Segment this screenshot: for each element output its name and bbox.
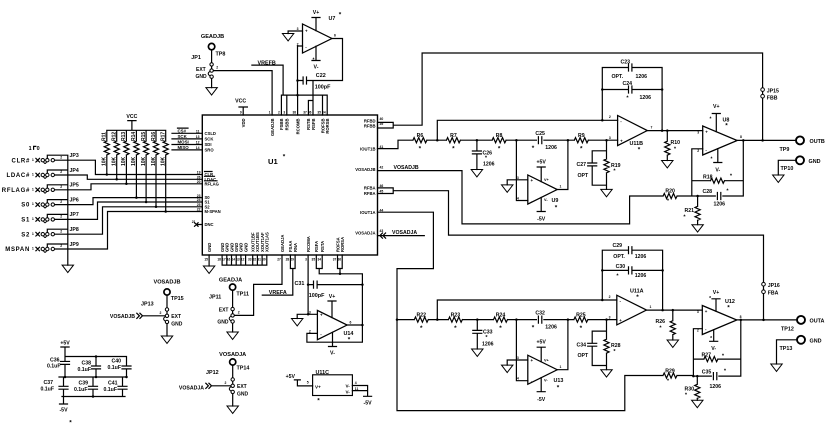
svg-text:2: 2 [697,328,699,332]
svg-text:3: 3 [609,316,611,320]
svg-text:R9: R9 [578,133,585,139]
svg-text:+: + [620,138,623,143]
svg-text:10K: 10K [112,156,118,166]
svg-text:C37: C37 [43,380,53,386]
svg-text:R27: R27 [702,353,712,359]
svg-text:TP10: TP10 [781,166,794,172]
svg-text:2: 2 [216,66,218,70]
svg-text:R17: R17 [161,132,167,141]
svg-text:SCK: SCK [178,134,188,139]
svg-text:C34: C34 [577,342,587,348]
svg-text:100pF: 100pF [315,85,331,91]
svg-text:2: 2 [278,110,280,114]
svg-text:35: 35 [312,258,316,262]
svg-text:FBB: FBB [767,96,778,102]
svg-text:S0: S0 [21,203,30,209]
svg-text:EXT: EXT [171,314,181,320]
svg-text:1: 1 [32,217,34,221]
svg-text:*: * [710,116,712,122]
svg-text:RSBB: RSBB [285,119,290,131]
svg-text:U13: U13 [554,378,564,384]
svg-text:C32: C32 [535,310,545,316]
svg-text:+: + [705,309,708,314]
svg-text:1: 1 [560,365,562,369]
svg-text:VOSADJA: VOSADJA [355,231,375,236]
svg-text:2: 2 [60,244,62,248]
svg-text:2: 2 [697,149,699,153]
svg-text:R8: R8 [496,133,503,139]
svg-text:R21: R21 [684,208,694,214]
svg-text:C27: C27 [577,162,587,168]
svg-text:SDI: SDI [205,142,212,147]
svg-text:1206: 1206 [483,162,495,168]
svg-text:41: 41 [380,145,384,149]
svg-text:GND: GND [171,321,183,327]
svg-text:JP1: JP1 [191,55,201,61]
svg-text:C38: C38 [81,361,91,367]
svg-text:SRO: SRO [205,148,215,153]
svg-text:R7: R7 [450,133,457,139]
svg-text:3: 3 [609,136,611,140]
svg-text:+: + [531,358,534,363]
svg-text:42: 42 [380,165,384,169]
svg-text:3: 3 [697,131,699,135]
svg-text:6: 6 [350,321,352,325]
svg-text:LDAC#: LDAC# [6,173,30,179]
svg-text:GEADJA: GEADJA [219,277,242,283]
svg-text:+5V: +5V [60,341,70,347]
svg-text:JP8: JP8 [70,227,79,233]
svg-text:MOSI: MOSI [178,140,189,145]
svg-text:GEADJB: GEADJB [201,34,224,40]
svg-text:IOUT1B: IOUT1B [360,146,375,151]
svg-text:TP9: TP9 [780,147,790,153]
svg-text:2: 2 [609,115,611,119]
svg-text:GND: GND [243,243,248,252]
svg-text:0.1uF: 0.1uF [77,367,91,373]
svg-text:R18: R18 [703,175,713,181]
svg-text:U1: U1 [268,157,278,166]
svg-text:38: 38 [292,110,296,114]
svg-text:XOUT1AS: XOUT1AS [265,232,270,252]
svg-text:10K: 10K [102,156,108,166]
svg-text:R29: R29 [665,368,675,374]
svg-text:36: 36 [308,110,312,114]
svg-text:0: 0 [37,146,40,152]
svg-text:RSFB: RSFB [311,119,316,130]
svg-text:RORSB: RORSB [325,119,330,134]
svg-text:VDD: VDD [241,119,246,128]
svg-text:+: + [531,178,534,183]
svg-text:R22: R22 [417,313,427,319]
svg-text:12: 12 [241,258,245,262]
svg-text:37: 37 [303,110,307,114]
svg-text:EXT: EXT [196,67,206,73]
svg-text:RCOMA: RCOMA [306,236,311,252]
svg-text:22: 22 [197,208,201,212]
svg-text:GND: GND [809,159,821,165]
svg-text:R15: R15 [141,132,147,141]
svg-text:EXT: EXT [219,308,229,314]
svg-text:14: 14 [231,258,235,262]
svg-text:VOSADJA: VOSADJA [219,352,246,358]
svg-text:34: 34 [322,110,326,114]
svg-text:JP16: JP16 [768,283,780,289]
svg-text:+: + [320,312,323,317]
svg-text:1206: 1206 [640,95,652,101]
svg-text:1: 1 [32,158,34,162]
svg-text:TP11: TP11 [236,291,249,297]
svg-text:37: 37 [333,258,337,262]
svg-text:2: 2 [60,185,62,189]
svg-text:*: * [709,296,711,302]
svg-text:0.1uF: 0.1uF [40,387,54,393]
svg-text:7: 7 [651,125,653,129]
svg-text:OUTB: OUTB [810,139,825,145]
svg-text:V-: V- [345,384,350,389]
svg-text:0.1uF: 0.1uF [74,387,88,393]
svg-text:V+: V+ [315,384,321,389]
svg-text:VOSADJB: VOSADJB [355,167,375,172]
svg-text:R16: R16 [151,132,157,141]
svg-text:-5V: -5V [59,407,68,413]
svg-text:*: * [711,156,713,162]
svg-text:R14: R14 [131,132,137,141]
svg-text:R11: R11 [102,132,108,141]
svg-text:R6: R6 [417,133,424,139]
svg-text:V-: V- [711,346,716,352]
svg-text:46: 46 [380,184,384,188]
svg-text:+5V: +5V [537,340,547,346]
svg-text:V-: V- [314,65,319,71]
svg-text:3: 3 [517,176,519,180]
svg-text:4: 4 [517,377,519,381]
svg-text:28: 28 [286,258,290,262]
svg-text:2: 2 [60,170,62,174]
svg-text:C22: C22 [316,73,326,79]
svg-text:1: 1 [29,146,32,152]
svg-text:V+: V+ [544,358,550,362]
svg-text:8: 8 [740,315,742,319]
svg-text:TP14: TP14 [237,365,250,371]
svg-text:R30: R30 [684,386,694,392]
svg-text:40: 40 [380,117,384,121]
svg-text:RFLAG#: RFLAG# [2,188,30,194]
svg-text:4: 4 [355,381,357,385]
svg-text:8: 8 [740,135,742,139]
svg-text:43: 43 [380,229,384,233]
svg-text:OPT.: OPT. [613,254,625,260]
svg-text:M-SPAN: M-SPAN [205,209,221,214]
svg-text:VOSADJA: VOSADJA [179,386,204,392]
svg-text:VOSADJB: VOSADJB [394,165,419,171]
svg-text:U11C: U11C [316,370,330,376]
svg-text:C29: C29 [613,243,623,249]
svg-text:V+: V+ [329,294,336,300]
svg-text:TP12: TP12 [781,327,794,333]
svg-text:3: 3 [283,110,285,114]
svg-text:R25: R25 [576,313,586,319]
svg-text:0.1uF: 0.1uF [103,387,117,393]
svg-text:16: 16 [227,258,231,262]
svg-text:SCK: SCK [205,137,214,142]
svg-text:13: 13 [196,135,200,139]
svg-text:23: 23 [197,194,201,198]
svg-text:1: 1 [32,247,34,251]
svg-text:30: 30 [262,258,266,262]
svg-text:VCC: VCC [126,114,137,120]
svg-text:TP15: TP15 [171,296,184,302]
svg-text:10K: 10K [131,156,137,166]
svg-text:C41: C41 [108,381,118,387]
svg-text:GND: GND [217,320,229,326]
svg-text:1: 1 [32,202,34,206]
svg-text:JP13: JP13 [141,302,154,308]
svg-text:GND: GND [237,391,249,397]
svg-text:31: 31 [257,258,261,262]
svg-text:10K: 10K [161,156,167,166]
svg-text:R10: R10 [671,140,681,146]
svg-text:VREFB: VREFB [258,60,276,66]
svg-text:19: 19 [197,171,201,175]
svg-text:3: 3 [305,258,307,262]
svg-text:GND: GND [196,74,208,80]
svg-text:C31: C31 [295,281,305,287]
svg-text:18: 18 [217,258,221,262]
svg-text:MISO: MISO [178,145,190,150]
svg-text:+5V: +5V [537,159,547,165]
svg-text:JP5: JP5 [70,183,79,189]
svg-text:24: 24 [197,198,201,202]
svg-text:14: 14 [196,146,200,150]
svg-text:JP3: JP3 [70,153,79,159]
svg-text:CLR#: CLR# [12,158,30,164]
svg-text:V-: V- [345,389,350,394]
svg-text:1206: 1206 [545,145,557,151]
svg-text:21: 21 [192,220,196,224]
svg-text:36: 36 [337,258,341,262]
svg-text:GND: GND [810,338,822,344]
svg-text:9: 9 [240,110,242,114]
svg-text:S2: S2 [21,232,30,238]
svg-text:11: 11 [196,130,200,134]
svg-text:3: 3 [517,356,519,360]
svg-text:V-: V- [715,168,720,174]
svg-text:2: 2 [160,311,162,315]
svg-text:12: 12 [196,141,200,145]
svg-text:26: 26 [197,176,201,180]
svg-text:100pF: 100pF [309,293,325,299]
svg-text:RFBA: RFBA [364,186,376,191]
svg-text:C36: C36 [50,357,60,363]
svg-text:RFBB: RFBB [364,124,376,129]
svg-text:OPT: OPT [578,173,589,179]
svg-text:VREFA: VREFA [269,290,287,296]
svg-text:15: 15 [204,258,208,262]
svg-text:6: 6 [334,33,336,37]
svg-text:2: 2 [609,295,611,299]
svg-text:0.1uF: 0.1uF [107,365,121,371]
svg-text:2: 2 [297,42,299,46]
svg-text:RCOMB: RCOMB [295,119,300,135]
svg-text:FSBB: FSBB [279,119,284,130]
svg-text:1206: 1206 [636,74,648,80]
svg-text:10K: 10K [121,156,127,166]
svg-text:1: 1 [32,187,34,191]
svg-text:3: 3 [309,310,311,314]
svg-text:V+: V+ [313,10,320,16]
svg-text:GEADJB: GEADJB [270,119,275,136]
svg-text:S1: S1 [21,218,30,224]
svg-text:2: 2 [238,311,240,315]
svg-text:2: 2 [309,330,311,334]
svg-text:V+: V+ [544,178,550,182]
svg-text:44: 44 [380,208,384,212]
svg-text:CS#: CS# [178,129,187,134]
svg-text:35: 35 [317,110,321,114]
svg-text:27: 27 [277,258,281,262]
svg-text:JP11: JP11 [209,294,221,300]
svg-text:+: + [619,318,622,323]
svg-text:R13: R13 [121,132,127,141]
svg-text:FBA: FBA [768,290,779,296]
svg-text:GEADJA: GEADJA [280,235,285,252]
svg-text:C23: C23 [621,59,631,65]
svg-text:3: 3 [297,27,299,31]
svg-text:VCC: VCC [235,99,246,105]
svg-text:1: 1 [32,173,34,177]
svg-text:1: 1 [269,110,271,114]
svg-text:2: 2 [225,381,227,385]
svg-text:CSLD: CSLD [205,131,216,136]
svg-text:GND: GND [207,243,212,252]
svg-text:C40: C40 [111,358,121,364]
svg-text:R24: R24 [496,313,506,319]
svg-text:JP12: JP12 [206,370,219,376]
svg-text:C30: C30 [616,264,626,270]
svg-text:1206: 1206 [635,254,647,260]
svg-text:RSTA: RSTA [320,241,325,252]
svg-text:45: 45 [380,190,384,194]
svg-text:25: 25 [197,203,201,207]
svg-text:20: 20 [197,180,201,184]
svg-text:MSPAN: MSPAN [5,247,30,253]
svg-text:1: 1 [32,232,34,236]
svg-text:RORSA: RORSA [340,237,345,252]
svg-text:OUTA: OUTA [810,318,825,324]
svg-text:33: 33 [248,258,252,262]
svg-text:4: 4 [517,196,519,200]
svg-text:*: * [313,58,315,64]
svg-text:13: 13 [236,258,240,262]
svg-text:10K: 10K [141,156,147,166]
svg-text:3: 3 [697,310,699,314]
svg-text:VOSADJA: VOSADJA [392,230,417,236]
svg-text:29: 29 [290,258,294,262]
svg-text:VOSADJB: VOSADJB [110,314,135,320]
svg-text:RSFA: RSFA [314,241,319,252]
svg-text:2: 2 [60,215,62,219]
svg-text:2: 2 [60,155,62,159]
svg-text:2: 2 [60,200,62,204]
svg-text:OPT.: OPT. [612,74,624,80]
svg-text:R20: R20 [665,188,675,194]
svg-text:1206: 1206 [482,342,494,348]
svg-text:R12: R12 [112,132,118,141]
svg-text:-5V: -5V [537,397,546,403]
svg-text:10K: 10K [151,156,157,166]
svg-text:39: 39 [380,122,384,126]
svg-text:DNC: DNC [205,222,214,227]
svg-text:V+: V+ [713,290,720,296]
svg-text:1: 1 [560,185,562,189]
svg-text:C39: C39 [78,381,88,387]
svg-text:RNA: RNA [293,243,298,252]
svg-text:U7: U7 [329,16,336,22]
svg-text:R26: R26 [656,319,666,325]
svg-text:OPT: OPT [578,353,589,359]
svg-text:JP9: JP9 [70,242,79,248]
svg-text:5: 5 [307,381,309,385]
svg-text:C35: C35 [702,370,712,376]
svg-text:V-: V- [330,351,335,357]
svg-text:U11B: U11B [630,141,644,147]
svg-text:11: 11 [355,387,359,391]
svg-text:+: + [705,129,708,134]
svg-text:JP4: JP4 [70,168,79,174]
svg-text:RFBA: RFBA [364,191,376,196]
svg-text:IOUT1A: IOUT1A [360,210,375,215]
svg-text:+: + [305,29,308,34]
svg-text:R23: R23 [451,313,461,319]
svg-text:U9: U9 [552,198,559,204]
svg-text:V+: V+ [713,104,720,110]
svg-text:C24: C24 [623,81,633,87]
svg-text:2: 2 [60,229,62,233]
svg-text:JP15: JP15 [767,88,779,94]
svg-text:*: * [710,336,712,342]
svg-text:RFLAG: RFLAG [205,181,219,186]
svg-text:C28: C28 [703,189,713,195]
svg-text:1206: 1206 [545,325,557,331]
svg-text:-5V: -5V [537,217,546,223]
svg-text:TP13: TP13 [780,346,793,352]
svg-text:1206: 1206 [714,202,726,208]
svg-text:JP7: JP7 [70,212,79,218]
svg-text:17: 17 [222,258,226,262]
svg-text:JP6: JP6 [70,197,79,203]
svg-text:1206: 1206 [635,273,647,279]
svg-text:C25: C25 [535,131,545,137]
svg-text:EXT: EXT [237,384,247,390]
svg-text:VOSADJB: VOSADJB [153,279,180,285]
svg-text:1206: 1206 [710,384,722,390]
svg-text:-5V: -5V [364,401,373,407]
svg-text:+5V: +5V [286,374,296,380]
svg-text:1: 1 [650,305,652,309]
svg-text:32: 32 [253,258,257,262]
svg-text:TP8: TP8 [216,52,226,58]
svg-text:34: 34 [317,258,321,262]
svg-text:0.1uF: 0.1uF [47,364,61,370]
